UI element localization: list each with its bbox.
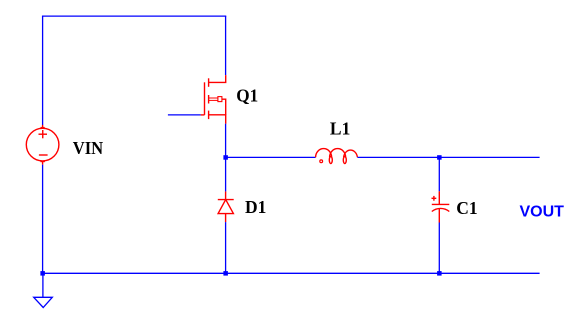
ground bbox=[34, 273, 53, 307]
svg-text:VIN: VIN bbox=[73, 138, 104, 158]
capacitor C1 bbox=[432, 191, 450, 222]
wire left vertical bottom bbox=[42, 165, 44, 274]
inductor L1 bbox=[316, 149, 358, 164]
node cap-ground junction bbox=[437, 271, 442, 276]
node switch junction bbox=[223, 155, 228, 160]
wire top rail bbox=[42, 15, 226, 17]
diode D1 bbox=[218, 191, 234, 222]
wire cap bottom bbox=[438, 223, 440, 274]
voltage source VIN bbox=[26, 125, 59, 165]
wire diode bottom bbox=[225, 222, 227, 273]
node output junction bbox=[437, 155, 442, 160]
svg-text:L1: L1 bbox=[330, 119, 350, 139]
wire diode top bbox=[225, 157, 227, 191]
wire bottom rail bbox=[43, 272, 540, 274]
wire inductor to output node bbox=[357, 156, 439, 158]
transistor Q1 bbox=[201, 75, 226, 124]
svg-text:C1: C1 bbox=[456, 198, 477, 218]
wire Q1 source to node bbox=[225, 124, 227, 158]
node diode-ground junction bbox=[223, 271, 228, 276]
svg-text:Q1: Q1 bbox=[236, 85, 258, 105]
wire output right bbox=[439, 156, 539, 158]
svg-text:D1: D1 bbox=[245, 197, 266, 217]
wire cap top bbox=[438, 157, 440, 191]
wire gate stub bbox=[168, 114, 201, 116]
wire left vertical top bbox=[42, 16, 44, 125]
wire switch row bbox=[226, 156, 316, 158]
node ground-left junction bbox=[40, 271, 45, 276]
wire Q1 drain drop bbox=[225, 16, 227, 75]
svg-text:VOUT: VOUT bbox=[520, 204, 565, 221]
